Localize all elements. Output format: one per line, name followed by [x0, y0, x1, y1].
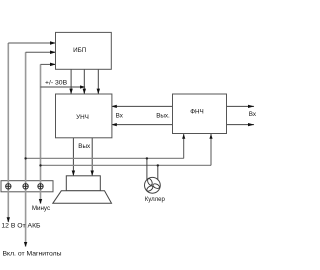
- arrowhead speaker wire 2: [91, 171, 94, 177]
- arrowhead feed 2 into FNCH bottom: [209, 134, 212, 139]
- arrowhead into IBP input 2: [50, 51, 56, 55]
- svg-text:ИБП: ИБП: [73, 47, 87, 54]
- wire FNCH right lower output: [227, 124, 255, 126]
- wire IBP to UNCH rail 2: [83, 69, 85, 93]
- wire FNCH right upper output: [227, 105, 255, 107]
- svg-text:Минус: Минус: [32, 205, 50, 212]
- wire remote-on bus top into IBP: [26, 51, 56, 53]
- svg-text:12 В От АКБ: 12 В От АКБ: [1, 222, 41, 229]
- terminal screw 3: [38, 183, 44, 189]
- svg-text:Вкл. от Магнитолы: Вкл. от Магнитолы: [3, 251, 62, 258]
- arrowhead into UNCH in lower: [111, 123, 117, 126]
- wire remote-on bus vertical: [25, 52, 27, 246]
- arrowhead rail 2 into UNCH: [83, 89, 86, 95]
- wire 12V battery bus top into IBP: [8, 42, 55, 44]
- wire UNCH output to speaker 2: [91, 138, 93, 176]
- wire power feed to FNCH 1: [26, 157, 184, 159]
- wire minus bus vertical: [40, 64, 42, 203]
- svg-text:Вых: Вых: [78, 143, 91, 150]
- block FNCH (low pass filter): [173, 94, 227, 134]
- wire 12V battery bus vertical: [7, 43, 9, 222]
- terminal block X1: [1, 181, 53, 192]
- terminal screw 2: [23, 183, 29, 189]
- block IBP (power supply): [56, 32, 112, 69]
- terminal screw 1: [5, 183, 11, 189]
- svg-text:Вх: Вх: [116, 113, 124, 120]
- svg-text:Вых.: Вых.: [156, 113, 170, 120]
- svg-text:ФНЧ: ФНЧ: [190, 109, 204, 116]
- wire +/- 30V feed to UNCH: [41, 86, 85, 88]
- wire FNCH out to UNCH in lower: [112, 124, 172, 126]
- arrowhead rail 1 into UNCH: [69, 89, 72, 95]
- block UNCH (audio amplifier): [56, 94, 112, 138]
- arrowhead FNCH right upper: [248, 105, 254, 108]
- svg-text:Куллер: Куллер: [145, 197, 166, 203]
- wire FNCH out to UNCH in upper: [112, 105, 172, 107]
- arrowhead into IBP input 3: [50, 63, 56, 67]
- arrowhead into IBP input 1: [50, 41, 56, 45]
- wire minus bus top into IBP: [41, 63, 56, 65]
- svg-text:Вх: Вх: [249, 111, 257, 118]
- arrowhead into UNCH in upper: [111, 105, 117, 108]
- svg-text:УНЧ: УНЧ: [76, 114, 89, 121]
- arrowhead rail 3 into UNCH: [97, 89, 100, 95]
- arrowhead speaker wire 1: [72, 171, 75, 177]
- arrowhead remote-on end: [24, 242, 27, 247]
- wire IBP to UNCH rail 3: [97, 69, 99, 93]
- wire tap to cooler 2: [157, 165, 159, 179]
- speaker LS1: [53, 176, 112, 204]
- wire UNCH output to speaker 1: [72, 138, 74, 176]
- wire tap to cooler 1: [146, 158, 148, 179]
- arrowhead minus end: [39, 199, 42, 204]
- arrowhead feed 1 into FNCH bottom: [182, 134, 185, 139]
- junction dot cooler tap 2: [157, 164, 159, 166]
- junction dot at feed 1 start: [24, 157, 26, 159]
- svg-text:+/- 30В: +/- 30В: [45, 80, 68, 87]
- wire power feed to FNCH 2: [41, 164, 212, 166]
- junction dot cooler tap 1: [146, 157, 148, 159]
- junction dot at feed 2 start: [39, 164, 41, 166]
- arrowhead FNCH right lower: [248, 123, 254, 126]
- arrowhead +/- 30V junction: [80, 85, 86, 88]
- wire IBP to UNCH rail 1: [70, 69, 72, 93]
- arrowhead 12V battery end: [7, 217, 10, 222]
- cooler fan M1: [145, 177, 161, 193]
